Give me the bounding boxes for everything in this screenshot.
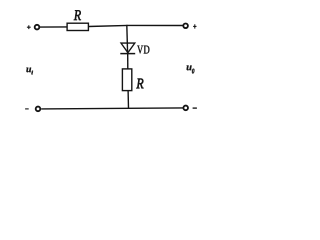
label R (series resistor value): [74, 10, 81, 20]
label VD: [137, 46, 143, 54]
minus sign at output bottom terminal: [193, 107, 197, 109]
wire resistor R to output + terminal (through node A): [88, 25, 183, 26]
wire node A down to diode anode: [126, 25, 129, 53]
label R (shunt resistor value): [136, 79, 143, 89]
wire shunt resistor to bottom rail: [127, 91, 129, 109]
diode VD cathode bar: [120, 53, 135, 55]
terminal input -: [36, 107, 41, 112]
terminal input +: [35, 25, 40, 30]
wire diode cathode to resistor R (shunt): [127, 54, 129, 70]
terminal output -: [183, 106, 188, 111]
label u_i subscript i: [31, 71, 33, 75]
diode VD (triangle, pointing down): [121, 43, 135, 53]
label u_0 subscript 0: [192, 69, 194, 74]
wire input to resistor R: [40, 26, 68, 28]
wire bottom rail: [41, 108, 183, 109]
label u_i (input voltage): [26, 68, 31, 73]
plus sign at output top terminal: [193, 24, 196, 28]
terminal output +: [183, 24, 188, 29]
label u_0 (output voltage): [187, 65, 192, 70]
minus sign at input bottom terminal: [25, 108, 29, 110]
resistor R (shunt, vertical): [122, 69, 131, 91]
plus sign at input top terminal: [27, 25, 31, 29]
resistor R (series, horizontal): [67, 23, 88, 30]
